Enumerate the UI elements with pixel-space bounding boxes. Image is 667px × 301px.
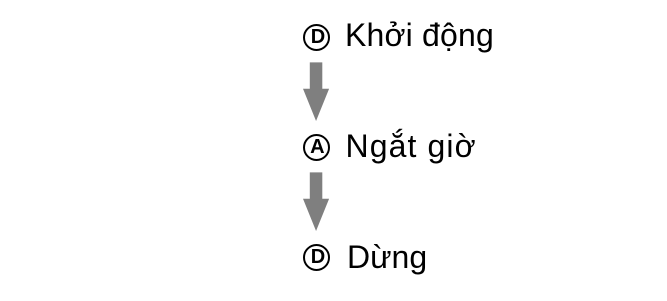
node D1 (Khoi dong) circled D	[303, 24, 330, 51]
node D2 (Dung) circled D	[303, 244, 330, 271]
label Khoi dong	[345, 19, 494, 51]
label Ngat gio	[346, 130, 477, 162]
arrow 2 (down, gray)	[302, 172, 330, 232]
node A (Ngat gio) circled A	[303, 134, 330, 161]
label Dung	[347, 241, 427, 273]
arrow 1 (down, gray)	[302, 62, 330, 122]
